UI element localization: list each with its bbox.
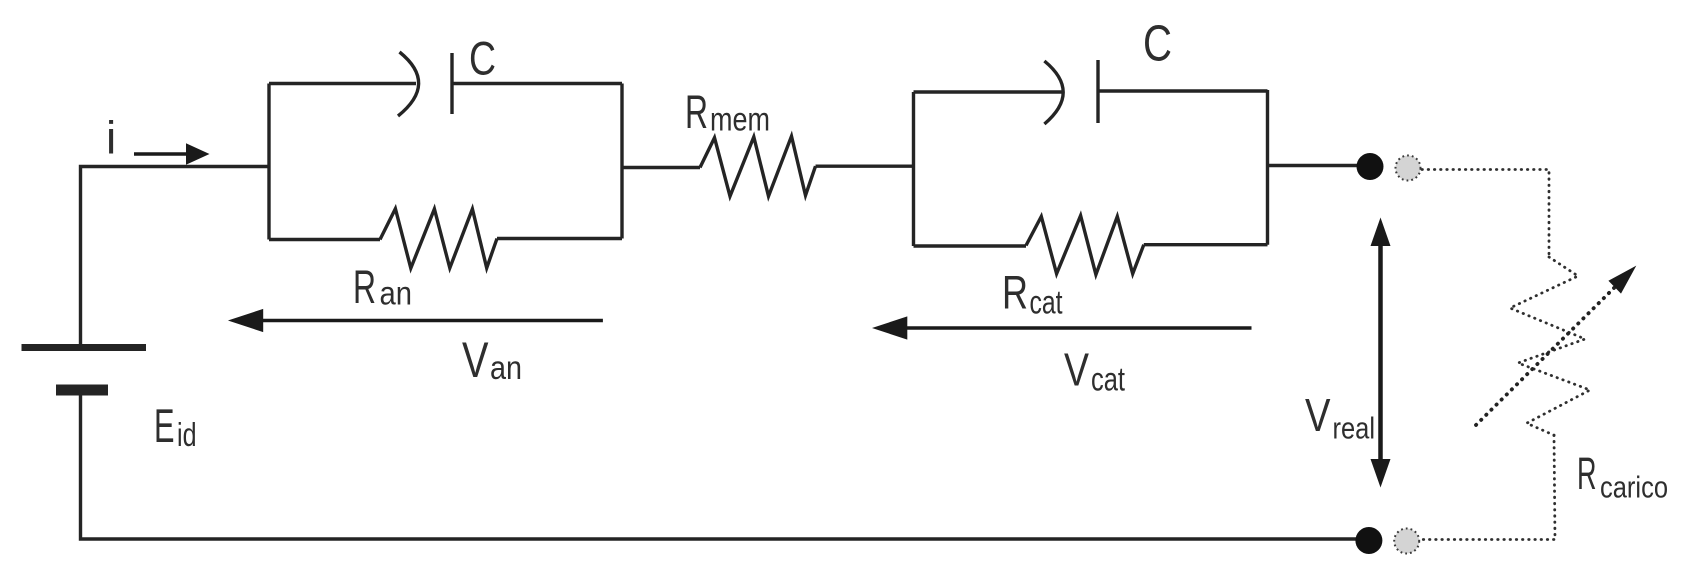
svg-text:R: R — [353, 260, 376, 313]
svg-text:R: R — [1577, 448, 1597, 499]
svg-text:V: V — [1305, 389, 1331, 441]
svg-text:mem: mem — [710, 101, 770, 138]
svg-text:i: i — [106, 112, 116, 164]
svg-text:E: E — [154, 399, 175, 452]
svg-text:an: an — [380, 275, 413, 312]
svg-text:V: V — [1064, 344, 1089, 396]
svg-text:R: R — [685, 85, 708, 138]
svg-text:cat: cat — [1030, 284, 1063, 321]
svg-text:C: C — [1143, 15, 1172, 72]
svg-text:real: real — [1333, 411, 1376, 446]
svg-text:V: V — [462, 332, 489, 388]
svg-text:C: C — [469, 32, 496, 85]
svg-text:id: id — [177, 416, 197, 453]
svg-text:carico: carico — [1600, 470, 1668, 505]
svg-text:R: R — [1002, 266, 1028, 319]
svg-text:an: an — [490, 349, 522, 386]
svg-text:cat: cat — [1091, 361, 1125, 398]
